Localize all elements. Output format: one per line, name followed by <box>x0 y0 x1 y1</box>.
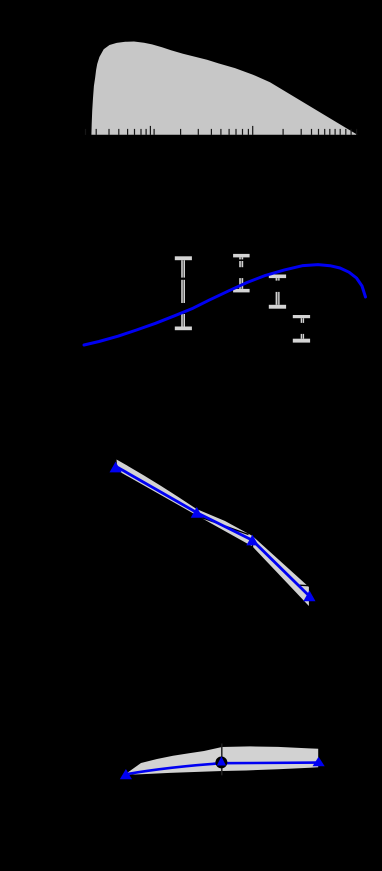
panel 1 rug ticks <box>86 126 357 135</box>
panel 1 density area <box>91 42 357 135</box>
panel 4 black error bar <box>221 744 223 776</box>
panel 3 black mark near T4 <box>300 584 309 587</box>
panel 2 error bar 2 <box>233 254 250 293</box>
panel 3 black mark under T3 <box>252 545 254 549</box>
panel 2 error bar 3 <box>269 275 286 309</box>
panel 4 band <box>125 746 319 774</box>
panel 3 triangle marker T2 <box>191 507 203 518</box>
panel 4 blue line <box>126 763 319 775</box>
panel 4 blue triangle on circle <box>217 756 226 765</box>
panel 4 right triangle <box>313 757 325 766</box>
panel 3 blue polyline <box>116 466 310 596</box>
panel 3 triangle marker T1 <box>110 462 122 473</box>
panel 4 left triangle <box>120 769 132 779</box>
panel 3 triangle marker T4 <box>303 590 315 601</box>
panel 2 blue curve <box>84 265 366 345</box>
panel 3 black reference line segment A <box>201 517 249 534</box>
panel 2 error bar 4 <box>293 315 310 343</box>
panel 4 black circle marker <box>215 756 227 768</box>
panel 3 confidence band <box>117 460 309 607</box>
panel 2 error bar 1 <box>175 256 192 330</box>
panel 3 triangle marker T3 <box>246 535 258 546</box>
